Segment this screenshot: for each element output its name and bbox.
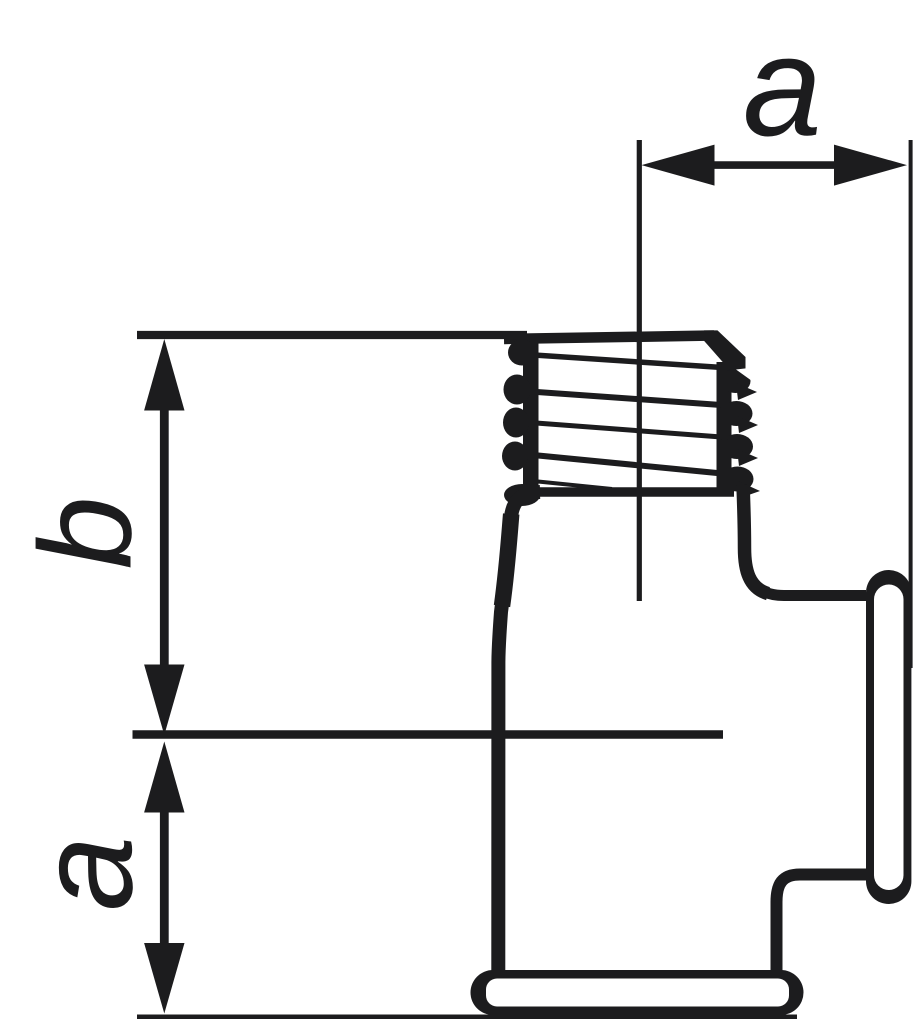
label a (top)	[743, 7, 822, 166]
vertical centerline of threaded outlet	[637, 140, 642, 601]
thread crest line 1	[534, 355, 730, 368]
svg-text:a: a	[10, 836, 161, 911]
label b (rotated)	[12, 496, 159, 569]
svg-text:b: b	[12, 496, 159, 569]
dimension a (top): shaft	[710, 161, 838, 169]
dimension b: lower arrowhead	[144, 665, 184, 736]
bottom flange (capsule inner face)	[486, 979, 789, 1007]
dimension b: shaft	[160, 405, 169, 670]
dimension a (top): right arrowhead	[834, 145, 907, 186]
right flange (capsule inner face)	[874, 585, 904, 891]
dimension a (top): left arrowhead	[642, 145, 715, 186]
extension line bottom (dimension a lower reference)	[137, 1015, 797, 1020]
thread top chamfer	[704, 330, 746, 372]
extension line right (flange face reference)	[909, 140, 913, 668]
branch bottom outline into lower body	[777, 875, 867, 973]
thread bottom edge	[539, 487, 734, 497]
body left outline	[498, 492, 540, 972]
thread left flank (root edge + crest scallops)	[502, 337, 540, 506]
thread root line 4	[533, 455, 717, 473]
thread root line 3	[536, 423, 728, 438]
extension/center line middle (branch axis, dimension b/a reference)	[133, 730, 724, 739]
bottom flange (capsule outer)	[471, 970, 804, 1015]
dimension a (left): shaft	[160, 807, 169, 949]
dimension a (left): lower arrowhead	[144, 943, 184, 1014]
thread runout line 5	[538, 482, 612, 490]
body right outline into branch top	[743, 485, 866, 596]
extension line top (dimension b upper reference)	[137, 331, 527, 339]
thread root line 2	[537, 392, 721, 405]
dimension b: upper arrowhead	[144, 339, 184, 411]
right flange (capsule outer)	[866, 570, 911, 904]
thread right flank (root edge + crest scallops)	[717, 362, 767, 498]
label a (left, rotated)	[10, 836, 161, 911]
svg-text:a: a	[743, 7, 822, 166]
thread top edge	[504, 336, 714, 340]
dimension a (left): upper arrowhead	[144, 742, 184, 813]
